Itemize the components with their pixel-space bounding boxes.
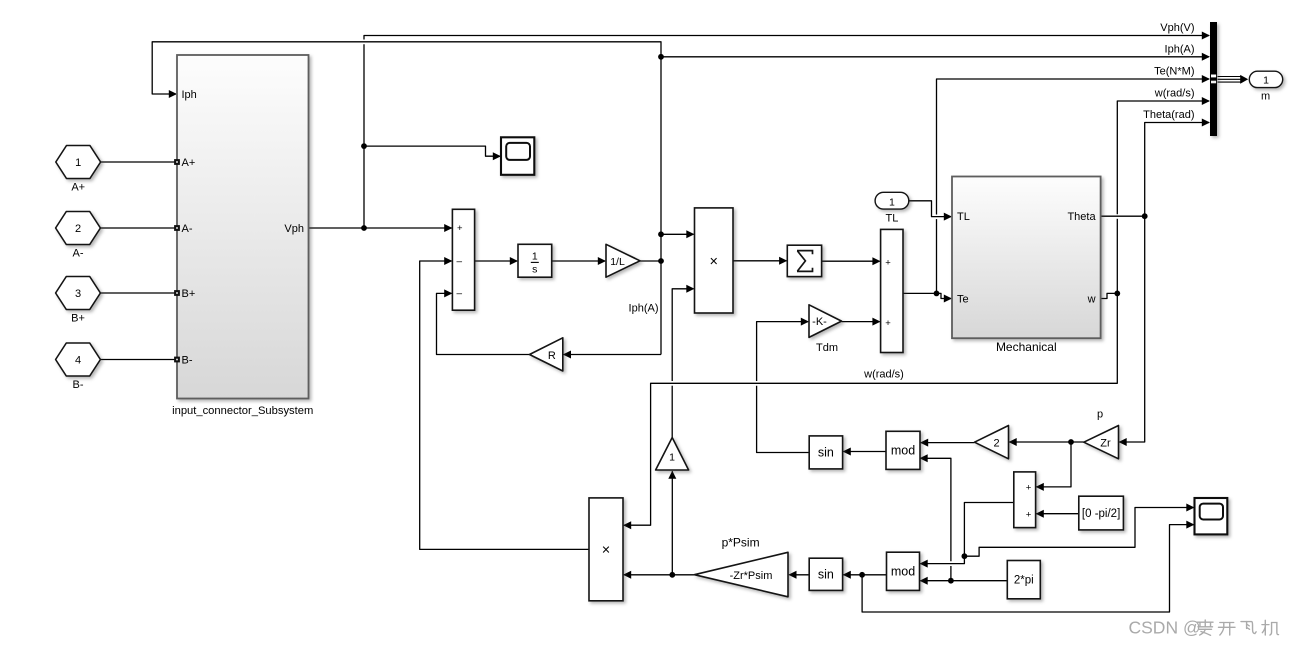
- svg-text:1: 1: [889, 197, 895, 209]
- wire Iph vertical: [152, 42, 661, 355]
- label Iph(A): [629, 303, 659, 315]
- svg-text:sin: sin: [818, 446, 834, 460]
- wire In3 B+ to subsystem: [101, 292, 176, 294]
- svg-text:Iph(A): Iph(A): [1165, 43, 1195, 55]
- subsystem Mechanical: [952, 177, 1101, 355]
- label Te(N*M): [1154, 66, 1194, 78]
- svg-text:p: p: [1097, 409, 1103, 421]
- node Vph scope junction: [361, 143, 367, 149]
- svg-text:CSDN @: CSDN @: [1129, 617, 1201, 637]
- svg-text:Tdm: Tdm: [816, 342, 838, 354]
- svg-text:3: 3: [75, 288, 81, 300]
- wire -Zr*Psim to gain1: [668, 471, 676, 575]
- svg-text:R: R: [548, 350, 556, 362]
- wire Vph to scope1: [364, 146, 501, 160]
- svg-text:B-: B-: [73, 379, 84, 391]
- wire In2 A- to subsystem: [101, 227, 176, 229]
- wire gain R to sum1: [437, 289, 530, 354]
- svg-text:Vph: Vph: [284, 223, 304, 235]
- label w(rad/s) feedback: [863, 369, 904, 381]
- wire Zr to gain 2: [1009, 438, 1084, 446]
- node Iph junction mux: [658, 54, 664, 60]
- svg-text:2: 2: [993, 437, 999, 449]
- inport 1 A+: [56, 146, 101, 194]
- wire Iph to gain R input: [563, 351, 661, 359]
- sum1 Vph - RI - e: [452, 209, 474, 310]
- wire mod1 to sin1: [843, 448, 886, 456]
- inport 3 B+: [56, 277, 101, 325]
- svg-text:Iph: Iph: [182, 89, 197, 101]
- math mod1: [886, 431, 920, 469]
- gain 2: [975, 426, 1009, 459]
- wire Theta output: [1101, 215, 1145, 217]
- svg-text:TL: TL: [885, 212, 898, 224]
- product2: [589, 498, 623, 601]
- trig sin1: [809, 436, 842, 469]
- svg-text:–: –: [457, 256, 463, 267]
- gain 1 up: [656, 438, 689, 471]
- svg-text:+: +: [1026, 509, 1032, 520]
- svg-text:Vph(V): Vph(V): [1160, 22, 1194, 34]
- label Iph(A) mux: [1165, 43, 1195, 55]
- svg-text:A-: A-: [73, 248, 84, 260]
- wire gain -K- to sum2: [842, 318, 881, 326]
- wire TL to Mechanical: [909, 201, 952, 221]
- wire integrator to gain 1/L: [552, 257, 606, 265]
- trig sin2: [809, 558, 842, 590]
- wire sum1 to integrator: [475, 257, 518, 265]
- inport 2 A-: [56, 212, 101, 260]
- wire In1 A+ to subsystem: [101, 161, 176, 163]
- svg-text:+: +: [885, 318, 891, 329]
- svg-text:input_connector_Subsystem: input_connector_Subsystem: [172, 405, 313, 417]
- svg-text:Te: Te: [957, 294, 969, 306]
- wire sin1 to gain -K-: [757, 318, 810, 453]
- svg-text:Theta(rad): Theta(rad): [1143, 109, 1194, 121]
- svg-text:m: m: [1261, 90, 1270, 102]
- wire Vph(V) to mux: [364, 32, 1210, 229]
- svg-text:-K-: -K-: [812, 316, 827, 328]
- watermark CSDN: [1129, 617, 1279, 637]
- svg-text:1: 1: [1263, 75, 1269, 87]
- node -Zr*Psim junction: [669, 572, 675, 578]
- svg-text:B-: B-: [182, 355, 193, 367]
- gain R: [530, 338, 563, 371]
- node Zr junction: [1068, 439, 1074, 445]
- wire sum-of-elements to sum2: [822, 257, 881, 265]
- node 2*pi junction: [948, 578, 954, 584]
- svg-text:2*pi: 2*pi: [1014, 575, 1034, 587]
- outport 1 m: [1249, 71, 1282, 102]
- node w junction: [1114, 291, 1120, 297]
- svg-text:s: s: [532, 264, 537, 276]
- wire gain1 to product1 input: [672, 285, 694, 438]
- wire Theta to gain Zr: [1119, 216, 1145, 446]
- wire sum3 to mod2: [920, 503, 1014, 568]
- svg-text:mod: mod: [891, 444, 915, 458]
- inport 4 B-: [56, 343, 101, 391]
- svg-text:w: w: [1087, 294, 1096, 306]
- wire Vph to sum1: [309, 224, 453, 232]
- gain Zr p: [1084, 409, 1119, 459]
- svg-text:B+: B+: [182, 288, 196, 300]
- svg-text:A+: A+: [71, 182, 85, 194]
- scope Scope2: [1195, 498, 1228, 534]
- svg-text:1: 1: [532, 250, 538, 262]
- svg-text:Mechanical: Mechanical: [996, 340, 1057, 354]
- wire Theta(rad) to mux: [1145, 119, 1210, 217]
- svg-text:A+: A+: [182, 157, 196, 169]
- node Vph junction: [361, 225, 367, 231]
- svg-text:+: +: [457, 223, 463, 234]
- wire constant [0 -pi/2] to sum3: [1036, 510, 1079, 518]
- wire Iph to product1 input: [661, 230, 695, 238]
- node mod2 output junction: [859, 572, 865, 578]
- gain -Zr*Psim: [694, 536, 788, 597]
- wire mod2 to scope2 bottom: [862, 521, 1194, 612]
- wire 2*pi to mod1: [920, 454, 951, 580]
- wire mod2 to sin2: [843, 571, 887, 579]
- scope Scope1: [501, 137, 534, 175]
- svg-text:A-: A-: [182, 223, 193, 235]
- node Te junction: [934, 291, 940, 297]
- svg-text:–: –: [457, 289, 463, 300]
- svg-text:4: 4: [75, 355, 81, 367]
- svg-text:Iph(A): Iph(A): [629, 303, 659, 315]
- svg-text:Te(N*M): Te(N*M): [1154, 66, 1194, 78]
- wire -Zr*Psim to product2: [623, 571, 695, 579]
- label w(rad/s) mux: [1154, 88, 1195, 100]
- node Theta junction: [1142, 213, 1148, 219]
- wire 1/L output to Iph node: [640, 260, 661, 262]
- svg-text:w(rad/s): w(rad/s): [863, 369, 904, 381]
- wire Te(N*M) to mux: [937, 75, 1211, 293]
- wire product2 to sum1: [420, 257, 589, 549]
- sum2 Te sum: [881, 229, 903, 352]
- node Iph junction at 1/L: [658, 258, 664, 264]
- wire product1 to sum-of-elements: [733, 257, 787, 265]
- svg-text:+: +: [885, 257, 891, 268]
- svg-text:2: 2: [75, 223, 81, 235]
- svg-text:-Zr*Psim: -Zr*Psim: [730, 570, 773, 582]
- wire Zr to sum3: [1036, 442, 1071, 491]
- svg-text:1: 1: [669, 451, 675, 463]
- svg-text:1/L: 1/L: [610, 256, 625, 268]
- subsystem input_connector_Subsystem: [172, 55, 313, 417]
- svg-text:Zr: Zr: [1100, 437, 1111, 449]
- svg-text:+: +: [1026, 482, 1032, 493]
- gain 1/L: [606, 244, 640, 277]
- svg-text:mod: mod: [891, 565, 915, 579]
- svg-text:Theta: Theta: [1067, 211, 1096, 223]
- wire 2*pi to mod2: [920, 577, 1008, 585]
- wire w feedback to product2: [623, 293, 1117, 529]
- wire sum2 to Te: [903, 293, 952, 302]
- constant [0 -pi/2]: [1079, 496, 1124, 530]
- wire gain2 to mod1: [920, 439, 975, 447]
- mux output: [1210, 22, 1217, 136]
- wire sum3 to scope2 top: [964, 504, 1194, 557]
- svg-text:TL: TL: [957, 211, 970, 223]
- label Theta(rad): [1143, 109, 1194, 121]
- node Iph junction product: [658, 231, 664, 237]
- svg-text:p*Psim: p*Psim: [722, 536, 760, 550]
- svg-text:B+: B+: [71, 313, 85, 325]
- svg-text:1: 1: [75, 157, 81, 169]
- label Vph(V): [1160, 22, 1194, 34]
- wire Iph(A) to mux: [661, 53, 1210, 61]
- sum3 theta offset: [1014, 472, 1036, 528]
- wire w output: [1101, 293, 1118, 298]
- svg-text:w(rad/s): w(rad/s): [1154, 88, 1195, 100]
- sum-of-elements Sigma: [787, 245, 821, 276]
- product1: [695, 208, 734, 313]
- wire mux bus to outport m: [1218, 75, 1249, 84]
- svg-text:[0 -pi/2]: [0 -pi/2]: [1082, 508, 1120, 520]
- inport TL: [875, 192, 909, 224]
- wire In4 B- to subsystem: [101, 359, 176, 361]
- svg-text:×: ×: [709, 254, 717, 270]
- math mod2: [887, 552, 920, 590]
- gain -K- Tdm: [809, 305, 842, 354]
- wire sin2 to gain -Zr*Psim: [788, 571, 809, 579]
- svg-text:×: ×: [602, 543, 610, 559]
- svg-text:sin: sin: [818, 567, 834, 581]
- wire w(rad/s) to mux: [1117, 97, 1210, 293]
- node sum3 output junction: [962, 553, 968, 559]
- integrator 1/s: [518, 244, 552, 277]
- constant 2*pi: [1007, 561, 1040, 599]
